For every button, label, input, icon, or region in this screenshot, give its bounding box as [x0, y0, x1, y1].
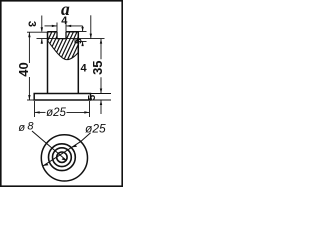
extension line of slot bottom to left: [37, 38, 58, 40]
svg-text:5: 5: [87, 94, 98, 100]
leader line for diameter 8: [32, 131, 67, 161]
front view: slot notch outline: [57, 32, 66, 39]
svg-text:ø25: ø25: [46, 107, 66, 119]
extension line below base left corner: [34, 101, 36, 117]
dimension 5 base thickness: lower tail with up arrow: [100, 100, 102, 114]
svg-text:ø25: ø25: [85, 121, 106, 135]
section hatching of broken-out section at slot: [30, 30, 93, 64]
extension line of base bottom to left: [27, 99, 34, 101]
dimension 4 slot width: right tail and arrow: [67, 25, 83, 27]
dimension diameter 25 under base: left segment with arrow: [35, 111, 46, 113]
freehand break line of local section: [48, 41, 79, 60]
extension line below base right corner: [89, 101, 91, 117]
dimension 40 overall height: line with arrows: [28, 32, 30, 63]
svg-text:8: 8: [27, 121, 34, 133]
svg-text:a: a: [61, 0, 70, 19]
front view: cylinder top surface: [47, 31, 78, 33]
svg-text:3: 3: [25, 21, 37, 27]
drawing frame border: [1, 1, 122, 186]
extension line above slot left: [56, 23, 58, 32]
svg-text:35: 35: [90, 60, 105, 74]
svg-text:ø: ø: [18, 122, 25, 134]
front view: base flange: [34, 94, 90, 101]
dimension 35: line with arrows: [100, 39, 102, 60]
extension line of top surface to right: [78, 31, 86, 33]
dimension 3 slot depth: lower tail with up arrow: [41, 39, 43, 44]
extension line of top surface to left: [27, 31, 48, 33]
diameter 25 dimension line across bottom view: [43, 142, 81, 166]
extension line of slot bottom to right: [66, 38, 105, 40]
svg-text:4: 4: [81, 63, 88, 75]
bottom view: cylinder circle: [49, 144, 76, 171]
dimension 5 depth right: upper tail with down arrow: [82, 26, 84, 31]
dimension 4 slot width: left tail and arrow: [45, 25, 57, 27]
extension line of base bottom to right: [91, 99, 112, 101]
bottom view: hole circle diameter 8: [57, 152, 67, 162]
bottom view: outer circle (base diameter): [41, 135, 87, 181]
hanging dimension arrow at slot bottom level: [90, 15, 92, 38]
svg-text:5: 5: [73, 38, 85, 44]
front view: cylinder left wall: [47, 32, 49, 94]
svg-text:40: 40: [16, 62, 31, 76]
bottom view: middle circle: [53, 148, 72, 167]
front view: cylinder right wall: [77, 32, 79, 94]
extension line at depth 5 right: [79, 41, 87, 43]
dimension diameter 25 under base: right segment with arrow: [67, 111, 90, 113]
extension line above slot right: [65, 23, 67, 32]
extension line of base top to right: [91, 93, 112, 95]
dimension 3 slot depth: upper tail with down arrow: [41, 16, 43, 32]
dimension 5 depth right: lower tail with up arrow: [82, 42, 84, 46]
